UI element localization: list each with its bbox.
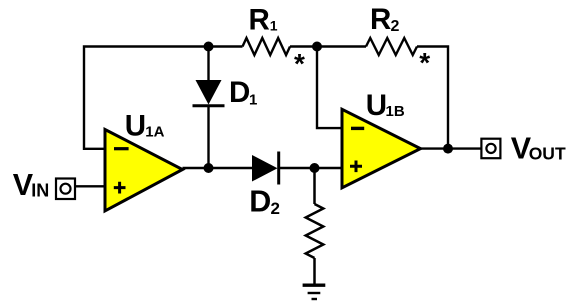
- wire: node X down to load resistor: [313, 168, 316, 204]
- VIN terminal: [56, 179, 75, 200]
- node B junction dot: [312, 42, 322, 52]
- op-amp U1A: [105, 130, 183, 211]
- svg-text:OUT: OUT: [529, 143, 566, 163]
- resistor R (to ground): [306, 204, 324, 258]
- node A junction dot: [204, 42, 214, 52]
- svg-text:R: R: [370, 3, 391, 36]
- wire: resistor to ground: [313, 258, 316, 285]
- U1B output junction dot: [443, 144, 453, 154]
- svg-text:U: U: [366, 89, 387, 122]
- wire: node A to node B segment between R1 and R2: [290, 45, 366, 47]
- svg-text:U: U: [125, 110, 146, 143]
- diode D1: [196, 80, 222, 105]
- wire: U1A inverting-input feedback to top rail: [84, 47, 243, 149]
- VOUT terminal: [481, 139, 500, 159]
- resistor R1: [243, 38, 291, 55]
- svg-text:2: 2: [271, 199, 280, 218]
- svg-text:*: *: [294, 48, 305, 79]
- resistor R2: [366, 38, 417, 55]
- wire: U1B output to VOUT terminal: [421, 147, 482, 149]
- svg-text:1A: 1A: [145, 124, 164, 141]
- svg-text:R: R: [249, 4, 270, 37]
- svg-text:*: *: [419, 47, 430, 78]
- wire: U1A output to D2 anode: [183, 167, 253, 169]
- wire: D2 cathode to node X and U1B non-inverting input: [279, 167, 342, 169]
- op-amp U1B: [342, 109, 421, 188]
- ground: [303, 284, 326, 287]
- diode D2: [252, 155, 278, 182]
- svg-text:1: 1: [270, 18, 278, 34]
- U1A output junction dot: [204, 163, 214, 173]
- node X junction dot: [310, 163, 320, 173]
- svg-text:D: D: [249, 185, 271, 219]
- svg-text:D: D: [229, 76, 250, 109]
- svg-text:2: 2: [391, 18, 400, 35]
- wire: VIN terminal to U1A non-inverting input: [75, 185, 106, 187]
- wire: D1 anode to node A: [207, 47, 209, 81]
- wire: node B down to U1B inverting input: [317, 47, 342, 129]
- svg-text:IN: IN: [31, 181, 49, 201]
- wire: R2 right lead down to U1B output node: [417, 47, 448, 149]
- svg-text:1B: 1B: [386, 103, 405, 120]
- svg-text:1: 1: [249, 91, 257, 108]
- wire: D1 cathode down to U1A output node: [207, 106, 209, 168]
